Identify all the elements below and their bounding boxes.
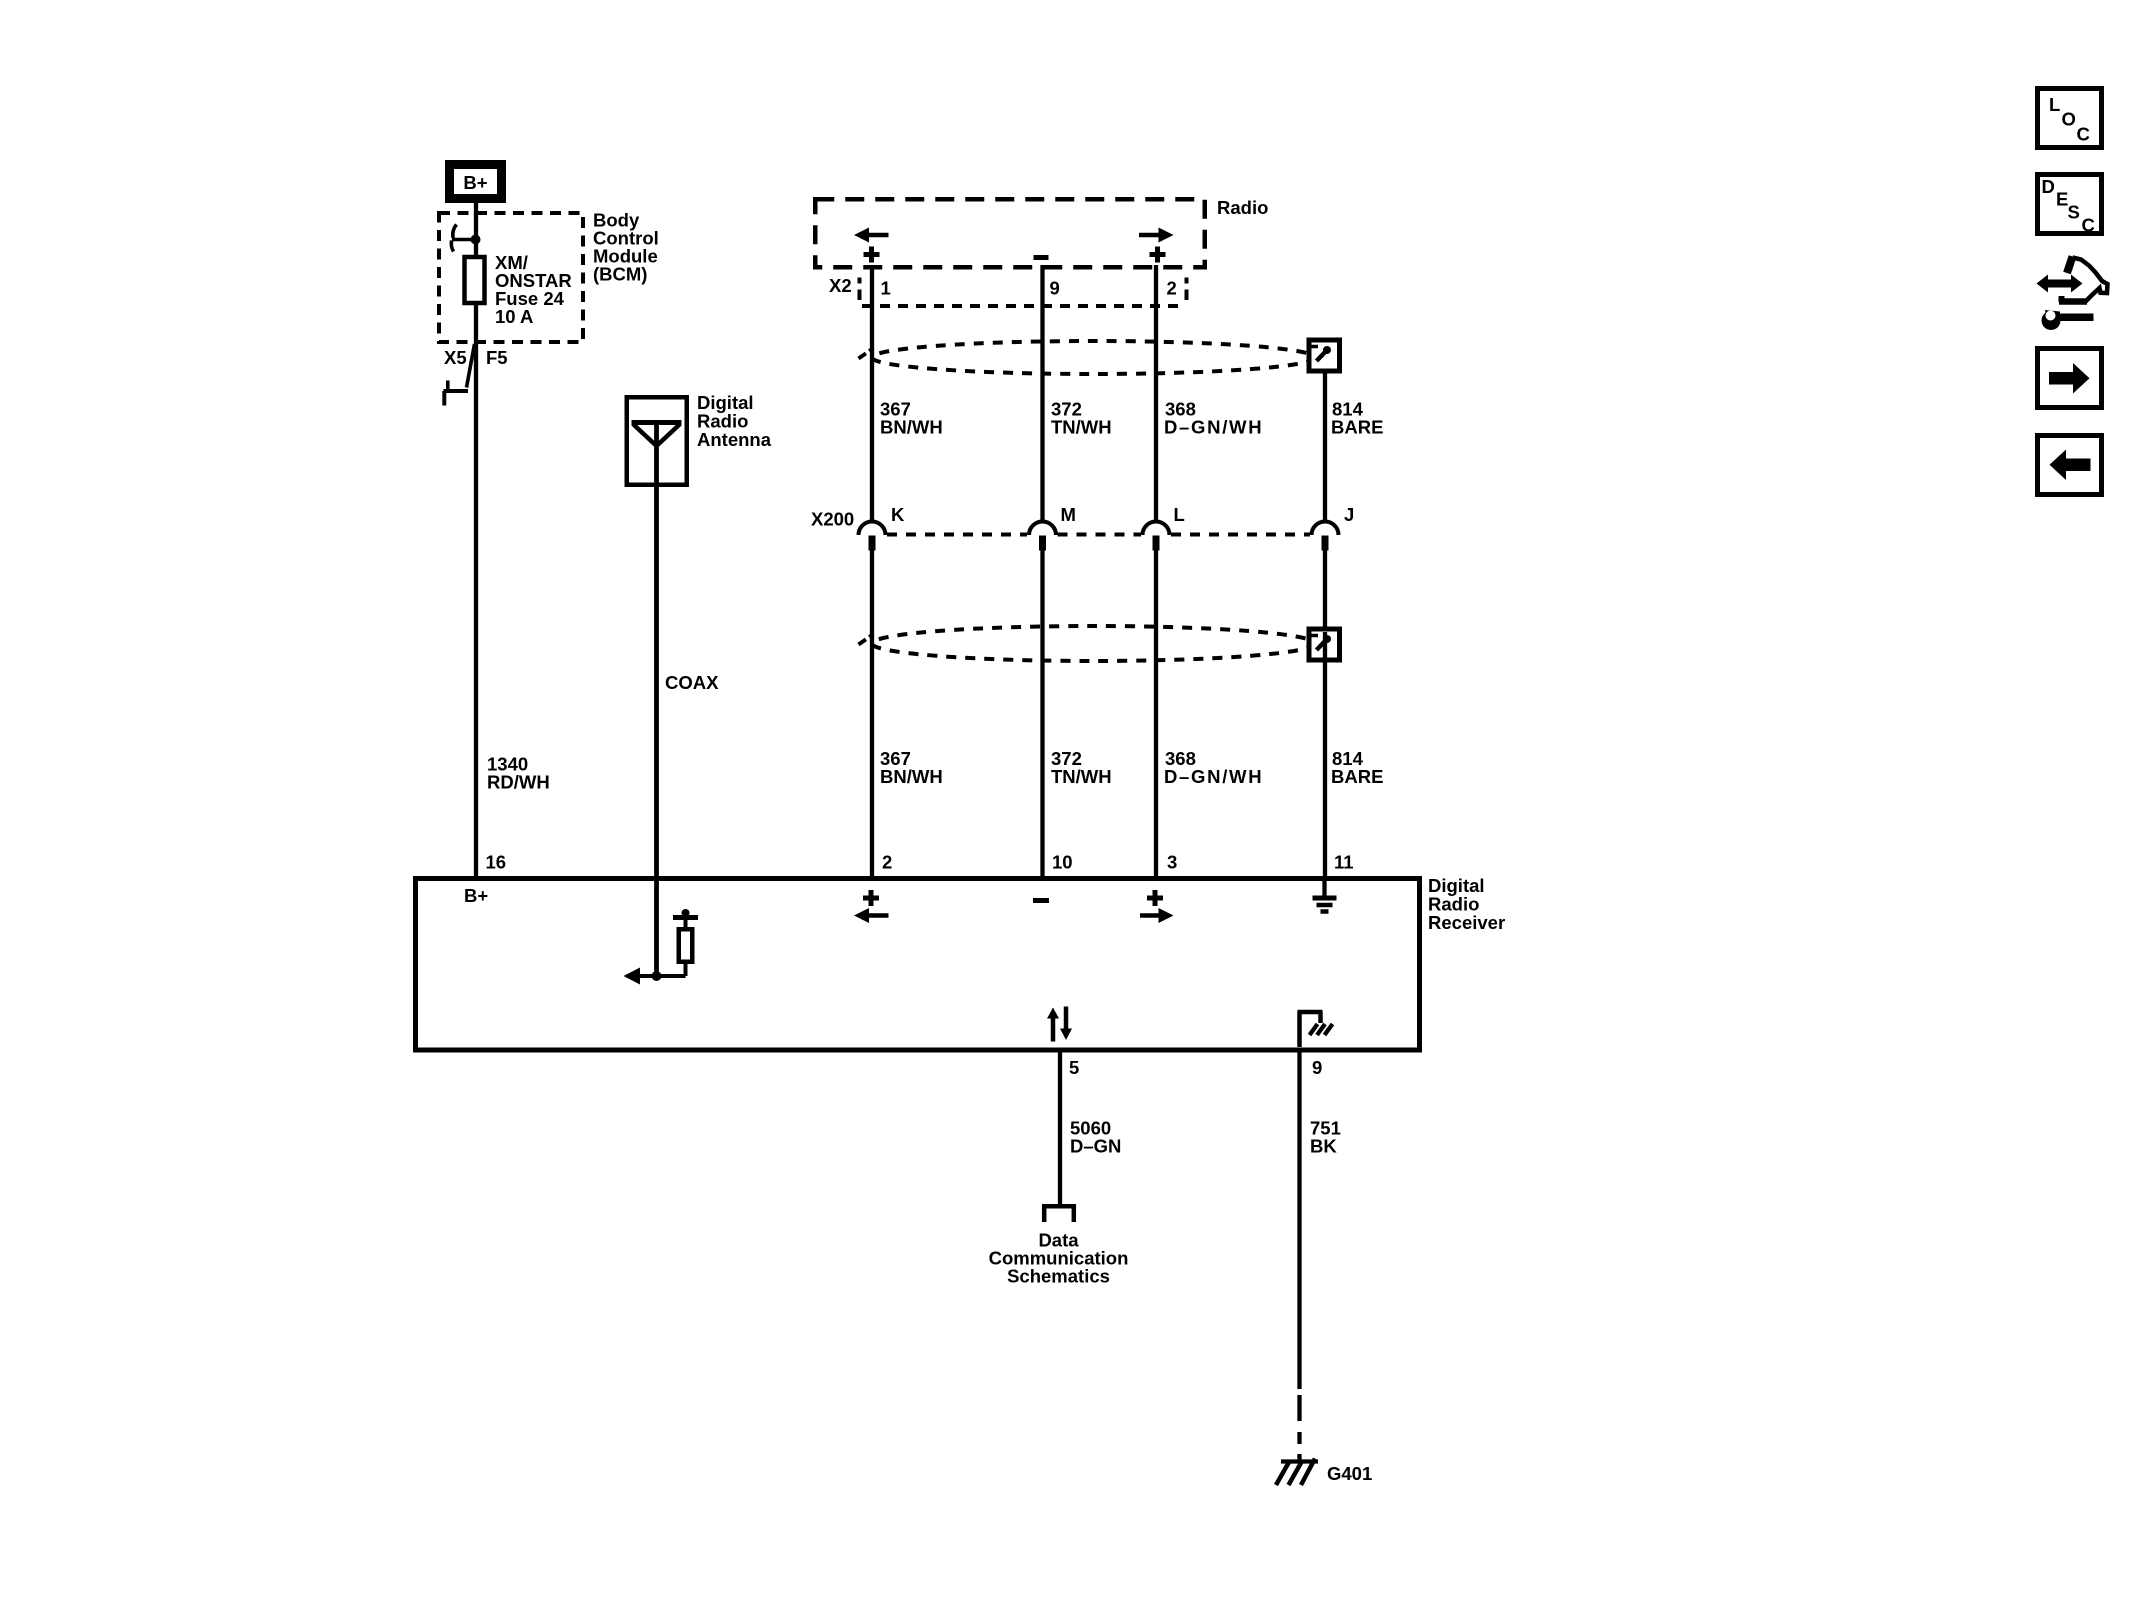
- svg-text:S: S: [2068, 202, 2080, 223]
- svg-text:O: O: [2062, 109, 2076, 130]
- arrow right (radio output +): [1139, 228, 1174, 243]
- DESC navigation box: [2038, 175, 2102, 236]
- svg-text:E: E: [2056, 189, 2068, 210]
- svg-text:K: K: [891, 504, 905, 525]
- wire 1340 RD/WH from B+ to pin 16: [474, 200, 478, 876]
- connector X200 dashed line: [887, 533, 1310, 537]
- wire label 814 BARE lower: [1331, 748, 1383, 787]
- chassis ground symbol in receiver: [1298, 1012, 1333, 1048]
- svg-text:3: 3: [1167, 852, 1177, 873]
- body control module BCM dashed box: [439, 213, 583, 342]
- minus sign in receiver: [1033, 898, 1049, 903]
- svg-text:G401: G401: [1327, 1463, 1372, 1484]
- wire 372 TN/WH lower segment: [1040, 550, 1044, 876]
- svg-text:16: 16: [486, 852, 507, 873]
- twisted pair shield ellipse upper: [859, 341, 1316, 374]
- shield termination box upper: [1309, 340, 1340, 371]
- wire label 368 D-GN/WH upper: [1164, 399, 1263, 438]
- shield drain wire lower segment 814: [1323, 550, 1327, 876]
- wire label 367 BN/WH lower: [880, 748, 943, 787]
- plus sign right in radio: [1150, 247, 1166, 263]
- wire 751 BK solid: [1297, 1048, 1301, 1389]
- svg-text:L: L: [2049, 94, 2060, 115]
- svg-text:10: 10: [1052, 852, 1073, 873]
- Digital Radio Receiver label: [1428, 875, 1505, 933]
- connector X200 label: [811, 509, 854, 530]
- connector terminal inside BCM: [451, 225, 480, 252]
- digital radio antenna: [627, 397, 687, 485]
- pin 11 receiver: [1334, 852, 1354, 873]
- wire label 1340 RD/WH: [487, 754, 550, 793]
- data communication schematics label: [989, 1230, 1129, 1287]
- svg-text:BN/WH: BN/WH: [880, 417, 943, 438]
- svg-text:Antenna: Antenna: [697, 429, 772, 450]
- diagnostic tool icon: [2037, 257, 2108, 331]
- wire label 751 BK: [1310, 1118, 1341, 1157]
- wire label 372 TN/WH upper: [1051, 399, 1112, 438]
- wire 5060 D-GN: [1058, 1048, 1062, 1204]
- antenna label: [697, 392, 772, 450]
- svg-text:11: 11: [1334, 852, 1354, 873]
- off-page connector to data communication: [1044, 1206, 1074, 1222]
- pin M: [1061, 504, 1076, 525]
- svg-text:D–GN/WH: D–GN/WH: [1164, 766, 1263, 787]
- svg-text:BARE: BARE: [1331, 417, 1383, 438]
- svg-text:1: 1: [881, 278, 891, 299]
- data bus double arrow in receiver: [1047, 1007, 1072, 1042]
- wire 751 BK dashed: [1297, 1395, 1301, 1463]
- pin 5: [1069, 1057, 1079, 1078]
- svg-text:D: D: [2042, 176, 2055, 197]
- wire label 367 BN/WH upper: [880, 399, 943, 438]
- connector X200 terminal J: [1312, 522, 1339, 551]
- svg-text:10 A: 10 A: [495, 306, 533, 327]
- twisted pair shield ellipse lower: [859, 626, 1316, 661]
- wire 372 TN/WH upper segment: [1040, 265, 1044, 523]
- fuse XM/ONSTAR Fuse 24 10 A: [465, 252, 572, 327]
- connector X5 symbol: [444, 344, 475, 406]
- svg-text:M: M: [1061, 504, 1076, 525]
- wire 367 BN/WH upper segment: [870, 265, 874, 523]
- svg-text:5: 5: [1069, 1057, 1079, 1078]
- svg-text:BN/WH: BN/WH: [880, 766, 943, 787]
- pin 2 receiver: [882, 852, 892, 873]
- svg-text:9: 9: [1050, 278, 1060, 299]
- plus sign left in receiver: [863, 890, 879, 906]
- shield termination box lower: [1309, 629, 1340, 660]
- digital radio receiver box: [416, 879, 1420, 1051]
- svg-text:Schematics: Schematics: [1007, 1266, 1110, 1287]
- back arrow box: [2038, 436, 2102, 495]
- pin L: [1174, 504, 1185, 525]
- svg-text:BARE: BARE: [1331, 766, 1383, 787]
- svg-text:9: 9: [1312, 1057, 1322, 1078]
- pin 3 receiver: [1167, 852, 1177, 873]
- ground G401: [1276, 1459, 1318, 1486]
- wire label 5060 D-GN: [1070, 1118, 1121, 1157]
- pin 10 receiver: [1052, 852, 1073, 873]
- wire 368 D-GN/WH lower segment: [1154, 550, 1158, 876]
- wire 368 D-GN/WH upper segment: [1154, 265, 1158, 523]
- wire label 368 D-GN/WH lower: [1164, 748, 1263, 787]
- wire 367 BN/WH lower segment: [870, 550, 874, 876]
- wire COAX from antenna to receiver: [654, 420, 659, 976]
- svg-text:RD/WH: RD/WH: [487, 772, 550, 793]
- Radio label: [1217, 197, 1268, 218]
- svg-text:2: 2: [882, 852, 892, 873]
- svg-text:(BCM): (BCM): [593, 264, 647, 285]
- pin K: [891, 504, 905, 525]
- pin 2: [1167, 278, 1177, 299]
- svg-text:D–GN/WH: D–GN/WH: [1164, 417, 1263, 438]
- svg-text:Radio: Radio: [1217, 197, 1268, 218]
- wire label 372 TN/WH lower: [1051, 748, 1112, 787]
- forward arrow box: [2038, 349, 2102, 408]
- B+ power symbol: [450, 165, 502, 199]
- node B+ in receiver: [464, 885, 488, 906]
- svg-text:C: C: [2077, 124, 2090, 145]
- svg-text:B+: B+: [464, 885, 488, 906]
- svg-text:D–GN: D–GN: [1070, 1136, 1121, 1157]
- svg-text:F5: F5: [486, 347, 508, 368]
- LOC navigation box: [2038, 89, 2102, 148]
- svg-text:B+: B+: [463, 172, 487, 193]
- svg-text:Receiver: Receiver: [1428, 912, 1505, 933]
- pin 16: [486, 852, 507, 873]
- svg-text:X200: X200: [811, 509, 854, 530]
- X2 label: [829, 275, 852, 296]
- ground symbol pin 11: [1313, 881, 1337, 912]
- BCM label: [593, 210, 659, 285]
- plus sign left in radio: [864, 247, 880, 263]
- svg-text:COAX: COAX: [665, 672, 719, 693]
- pin J: [1344, 504, 1354, 525]
- svg-text:2: 2: [1167, 278, 1177, 299]
- arrow left in receiver: [854, 908, 889, 923]
- connector X200 terminal M: [1029, 522, 1056, 551]
- svg-text:L: L: [1174, 504, 1185, 525]
- COAX label: [665, 672, 719, 693]
- radio dashed box: [815, 199, 1205, 267]
- connector X2 dashed line and marks: [860, 278, 1187, 307]
- G401 label: [1327, 1463, 1372, 1484]
- svg-text:BK: BK: [1310, 1136, 1337, 1157]
- wire label 814 BARE upper: [1331, 399, 1383, 438]
- svg-text:TN/WH: TN/WH: [1051, 417, 1112, 438]
- svg-text:J: J: [1344, 504, 1354, 525]
- svg-text:C: C: [2082, 215, 2095, 236]
- connector X200 terminal L: [1143, 522, 1170, 551]
- pin 9: [1312, 1057, 1322, 1078]
- arrow right in receiver: [1140, 908, 1174, 923]
- shield drain wire upper segment 814: [1323, 352, 1327, 523]
- minus sign in radio: [1034, 255, 1049, 260]
- arrow left (radio output +): [854, 228, 889, 243]
- pin 1: [881, 278, 891, 299]
- svg-text:X2: X2: [829, 275, 852, 296]
- svg-text:X5: X5: [444, 347, 467, 368]
- plus sign right in receiver: [1147, 890, 1163, 906]
- connector X200 terminal K: [859, 522, 886, 551]
- antenna input symbol in receiver: [624, 909, 699, 985]
- node X5 F5 labels: [444, 347, 508, 368]
- svg-text:TN/WH: TN/WH: [1051, 766, 1112, 787]
- pin 9: [1050, 278, 1060, 299]
